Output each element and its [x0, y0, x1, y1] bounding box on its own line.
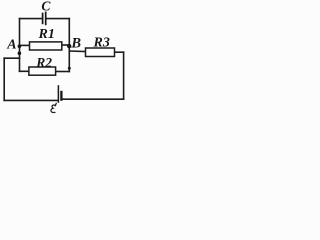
resistor R2 — [29, 67, 56, 75]
node B junction dot — [67, 44, 71, 48]
junction dot R2 right — [68, 67, 71, 70]
svg-text:C: C — [41, 0, 51, 13]
capacitor C plate left — [42, 13, 44, 25]
resistor R3 — [86, 48, 115, 57]
wire R2 right lead — [56, 71, 70, 73]
wire R2 left lead — [20, 70, 29, 72]
label battery emf (script epsilon) — [51, 103, 56, 112]
wire right branch vertical (B branch) — [68, 19, 70, 72]
wire left outer vertical — [3, 58, 5, 100]
battery short plate — [60, 91, 62, 101]
wire A to R1 left lead — [20, 44, 30, 46]
wire bottom left (left edge to battery) — [4, 99, 57, 101]
wire top-left vertical (capacitor branch / A branch) — [19, 19, 21, 72]
svg-text:B: B — [70, 36, 81, 52]
node A junction dot — [18, 44, 22, 48]
battery long plate — [57, 85, 59, 103]
svg-text:R1: R1 — [38, 27, 55, 42]
wire right outer vertical — [123, 52, 125, 99]
wire bottom right (battery to right edge) — [62, 98, 123, 100]
junction dot below A — [18, 51, 22, 55]
svg-text:R2: R2 — [35, 55, 52, 70]
capacitor C plate right — [45, 12, 47, 26]
wire R3 right lead to right edge — [115, 51, 124, 53]
svg-text:R3: R3 — [93, 36, 110, 51]
resistor R1 — [30, 42, 62, 50]
wire R1 right lead to node B — [62, 44, 70, 46]
wire top horizontal right of capacitor — [46, 18, 69, 20]
wire left jog to A branch — [4, 57, 19, 59]
wire R3 left lead from node B — [69, 50, 85, 53]
wire top horizontal left of capacitor — [20, 18, 42, 20]
svg-text:A: A — [6, 38, 16, 53]
